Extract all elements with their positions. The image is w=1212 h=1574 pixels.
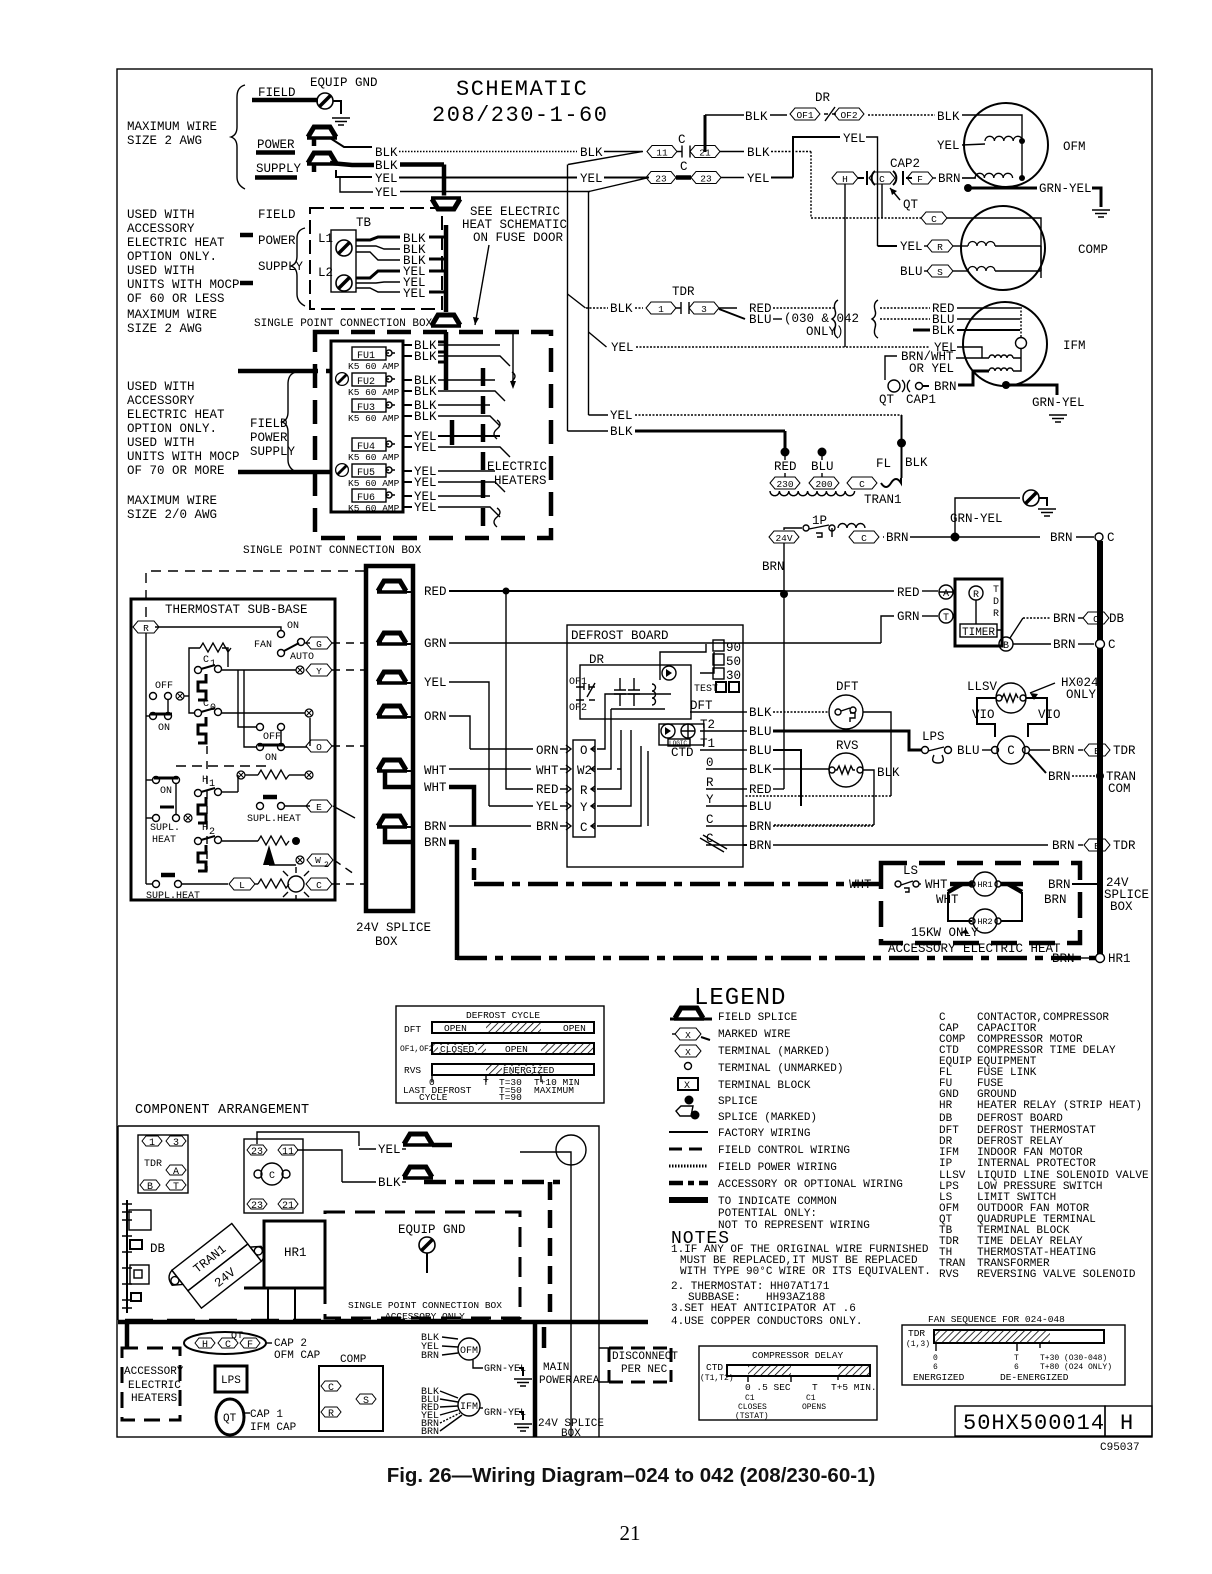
TB wires right: BLK x3 YEL x3 — [356, 237, 400, 240]
dashed R to splice — [146, 571, 365, 617]
svg-text:WITH TYPE 90°C WIRE OR ITS EQU: WITH TYPE 90°C WIRE OR ITS EQUIVALENT. — [680, 1266, 931, 1278]
svg-text:T+5 MIN.: T+5 MIN. — [831, 1382, 877, 1393]
svg-text:OF1: OF1 — [796, 110, 813, 121]
svg-text:SIZE 2/0 AWG: SIZE 2/0 AWG — [127, 508, 217, 522]
svg-text:OFM CAP: OFM CAP — [274, 1350, 321, 1362]
svg-text:MAXIMUM: MAXIMUM — [534, 1085, 574, 1096]
svg-text:BRN: BRN — [749, 820, 772, 834]
svg-text:YEL: YEL — [403, 287, 426, 301]
svg-text:INTERNAL PROTECTOR: INTERNAL PROTECTOR — [977, 1158, 1096, 1170]
heavy bus in box — [444, 332, 449, 390]
wire 21 up to DR — [704, 115, 707, 152]
svg-text:T+30 (O30-048): T+30 (O30-048) — [1040, 1354, 1107, 1363]
drop BLU stub — [818, 448, 827, 457]
svg-text:HEATERS: HEATERS — [131, 1393, 178, 1405]
svg-text:CLOSED: CLOSED — [440, 1044, 475, 1055]
splice RED — [377, 581, 407, 592]
YEL field splice — [403, 1134, 433, 1145]
C row to COMP — [811, 217, 921, 219]
compressor delay box — [699, 1346, 877, 1420]
heavy bus lower — [450, 420, 455, 445]
svg-text:LPS: LPS — [922, 730, 945, 744]
svg-text:4.USE COPPER CONDUCTORS ONLY.: 4.USE COPPER CONDUCTORS ONLY. — [671, 1316, 862, 1328]
svg-text:(TSTAT): (TSTAT) — [735, 1412, 769, 1421]
svg-text:BLK: BLK — [610, 425, 633, 439]
svg-text:F: F — [247, 1340, 253, 1351]
heavy dash-dot to accessory heat — [474, 882, 881, 887]
disconnect per nec dashed box — [609, 1348, 671, 1382]
svg-text:YEL: YEL — [536, 800, 559, 814]
svg-text:POWER: POWER — [250, 431, 288, 445]
wire to ground — [333, 101, 341, 114]
svg-text:SUPL.HEAT: SUPL.HEAT — [146, 891, 200, 902]
svg-text:50: 50 — [726, 655, 741, 669]
svg-text:C: C — [879, 174, 885, 185]
svg-text:DEFROST CYCLE: DEFROST CYCLE — [466, 1010, 540, 1021]
svg-text:R: R — [973, 590, 979, 601]
heavy feed lines — [238, 369, 296, 374]
verticals extending to bottom — [570, 1321, 572, 1437]
svg-text:HEAT SCHEMATIC: HEAT SCHEMATIC — [462, 218, 567, 232]
svg-text:OF2: OF2 — [840, 110, 857, 121]
svg-text:BLU: BLU — [749, 800, 772, 814]
contactor box — [244, 1139, 303, 1213]
drawing frame — [117, 69, 1152, 1437]
svg-text:21: 21 — [699, 148, 711, 159]
svg-text:LS: LS — [903, 864, 918, 878]
svg-text:BRN: BRN — [886, 531, 909, 545]
COMP box — [319, 1366, 383, 1431]
svg-text:A: A — [943, 589, 949, 600]
svg-text:BRN: BRN — [536, 820, 559, 834]
svg-text:C: C — [316, 880, 322, 891]
svg-text:NOT TO REPRESENT WIRING: NOT TO REPRESENT WIRING — [718, 1220, 870, 1232]
svg-text:X: X — [684, 1081, 690, 1092]
svg-text:C: C — [328, 1383, 334, 1394]
circle top right — [556, 1135, 586, 1165]
terminal marked symbol — [675, 1045, 701, 1057]
DR relay box — [580, 665, 691, 719]
svg-text:DFT: DFT — [836, 680, 859, 694]
svg-text:C: C — [861, 533, 867, 544]
24V splice box — [366, 566, 413, 911]
svg-text:ACCESSORY OR OPTIONAL WIRING: ACCESSORY OR OPTIONAL WIRING — [718, 1179, 903, 1191]
svg-text:FL: FL — [876, 457, 891, 471]
field control wiring symbol — [669, 1148, 708, 1151]
IFM internals — [1016, 338, 1027, 349]
svg-text:BLK: BLK — [932, 324, 955, 338]
svg-text:C: C — [580, 821, 588, 835]
svg-text:C: C — [1007, 744, 1015, 758]
svg-text:A: A — [173, 1167, 179, 1178]
svg-text:RED: RED — [897, 586, 920, 600]
resistor loop above C1 — [189, 648, 200, 667]
ground — [332, 118, 350, 125]
IFM small — [458, 1394, 480, 1416]
svg-text:OR YEL: OR YEL — [909, 362, 954, 376]
E row — [257, 803, 264, 810]
svg-text:DFT: DFT — [690, 699, 713, 713]
H drop — [844, 184, 846, 347]
svg-text:YEL: YEL — [610, 409, 633, 423]
YEL riser to top — [793, 137, 840, 178]
svg-text:RED: RED — [536, 783, 559, 797]
COMP motor — [961, 206, 1045, 290]
svg-text:C: C — [203, 699, 209, 710]
screw L1 — [336, 240, 352, 256]
svg-text:TERMINAL (UNMARKED): TERMINAL (UNMARKED) — [718, 1063, 843, 1075]
svg-text:POWER: POWER — [539, 1375, 572, 1387]
OFM motor — [964, 103, 1048, 187]
svg-text:C: C — [931, 214, 937, 225]
svg-text:QT: QT — [231, 1331, 243, 1342]
svg-text:BLK: BLK — [745, 110, 768, 124]
svg-text:FACTORY WIRING: FACTORY WIRING — [718, 1128, 810, 1140]
svg-text:11: 11 — [656, 148, 668, 159]
svg-text:FIELD: FIELD — [258, 208, 296, 222]
svg-text:ON: ON — [265, 753, 277, 764]
svg-text:FAN: FAN — [254, 640, 272, 651]
svg-text:X: X — [685, 1047, 691, 1058]
svg-text:ONLY): ONLY) — [806, 325, 844, 339]
OFM small — [458, 1338, 480, 1360]
svg-text:OPEN: OPEN — [563, 1023, 586, 1034]
svg-text:3: 3 — [173, 1138, 179, 1149]
svg-text:23: 23 — [251, 1147, 263, 1158]
svg-text:TO INDICATE COMMON: TO INDICATE COMMON — [718, 1196, 837, 1208]
svg-text:23: 23 — [700, 174, 712, 185]
checkbox 90 — [713, 640, 724, 651]
svg-text:21: 21 — [620, 1521, 641, 1545]
terminal block symbol — [678, 1078, 698, 1090]
svg-text:LEGEND: LEGEND — [694, 985, 786, 1012]
svg-text:COMPRESSOR DELAY: COMPRESSOR DELAY — [752, 1350, 844, 1361]
svg-text:1: 1 — [658, 304, 664, 315]
svg-text:L2: L2 — [318, 266, 333, 280]
field splice at box top — [431, 315, 461, 326]
svg-text:BRN: BRN — [421, 1351, 439, 1362]
svg-text:15KW ONLY: 15KW ONLY — [911, 926, 979, 940]
svg-text:FIELD POWER WIRING: FIELD POWER WIRING — [718, 1162, 837, 1174]
svg-text:CTD: CTD — [706, 1362, 723, 1373]
svg-text:C1: C1 — [745, 1394, 755, 1403]
svg-text:VIO: VIO — [972, 708, 995, 722]
LPS box — [215, 1366, 247, 1392]
bottom heavy dashed — [125, 1319, 520, 1324]
svg-text:COMPONENT ARRANGEMENT: COMPONENT ARRANGEMENT — [135, 1103, 309, 1118]
svg-text:21: 21 — [282, 1201, 294, 1212]
svg-text:BLU: BLU — [900, 265, 923, 279]
svg-text:BLK: BLK — [414, 350, 437, 364]
svg-text:T: T — [993, 585, 999, 596]
svg-text:DB: DB — [939, 1113, 953, 1125]
terminal OF2 — [834, 108, 864, 120]
O circuit OFF ON — [257, 724, 264, 731]
svg-text:ELECTRIC HEAT: ELECTRIC HEAT — [127, 236, 225, 250]
svg-text:TIMER: TIMER — [962, 627, 995, 639]
outer dashed box (single point connection box) — [315, 332, 551, 538]
svg-text:TDR: TDR — [908, 1328, 925, 1339]
drop from YEL row to FL — [901, 415, 903, 443]
wire 11 to BLK — [297, 1150, 342, 1182]
svg-text:CLOSES: CLOSES — [738, 1403, 767, 1412]
svg-text:USED WITH: USED WITH — [127, 208, 195, 222]
wires H1 — [222, 791, 238, 793]
svg-text:GRN-YEL: GRN-YEL — [484, 1408, 526, 1419]
svg-text:T: T — [943, 613, 949, 624]
svg-text:SINGLE POINT CONNECTION BOX: SINGLE POINT CONNECTION BOX — [348, 1300, 502, 1311]
svg-text:BRN: BRN — [1050, 531, 1073, 545]
svg-text:POWER: POWER — [258, 234, 296, 248]
svg-text:HEATER RELAY (STRIP HEAT): HEATER RELAY (STRIP HEAT) — [977, 1100, 1142, 1112]
svg-text:CAP 2: CAP 2 — [274, 1338, 307, 1350]
24V hex drop BRN — [783, 543, 785, 591]
svg-text:Y: Y — [706, 793, 714, 807]
resistor row with cx — [237, 771, 245, 779]
svg-text:MAXIMUM WIRE: MAXIMUM WIRE — [127, 120, 217, 134]
BLK drop from DFT — [863, 712, 891, 796]
svg-text:SINGLE POINT CONNECTION BOX: SINGLE POINT CONNECTION BOX — [243, 545, 422, 557]
svg-text:OFM: OFM — [1063, 140, 1086, 154]
svg-text:(1,3): (1,3) — [906, 1340, 930, 1349]
QT CAP1 — [888, 380, 900, 392]
svg-text:HEATERS: HEATERS — [494, 474, 547, 488]
svg-text:HR2: HR2 — [977, 917, 992, 927]
svg-text:UNITS WITH MOCP: UNITS WITH MOCP — [127, 278, 240, 292]
brace 030 — [832, 300, 838, 338]
TRAN1 terminals — [770, 477, 800, 489]
svg-text:23: 23 — [655, 174, 667, 185]
svg-text:SCHEMATIC: SCHEMATIC — [456, 77, 588, 102]
svg-text:ONLY: ONLY — [1066, 688, 1097, 702]
fuse FU6 — [352, 489, 386, 502]
svg-text:IFM: IFM — [460, 1402, 478, 1413]
svg-text:YEL: YEL — [937, 139, 960, 153]
heavy feed drop inside box — [512, 334, 514, 385]
R left bus — [145, 633, 147, 884]
svg-text:CAP1: CAP1 — [906, 393, 936, 407]
IFM motor — [963, 302, 1047, 386]
svg-text:WHT: WHT — [424, 781, 447, 795]
thick divider — [118, 1320, 648, 1325]
svg-text:ELECTRIC: ELECTRIC — [128, 1380, 181, 1392]
svg-text:WHT: WHT — [424, 764, 447, 778]
long risers from top section — [568, 152, 642, 165]
svg-text:X: X — [685, 1030, 691, 1041]
svg-text:SEE ELECTRIC: SEE ELECTRIC — [470, 205, 560, 219]
svg-text:W2: W2 — [577, 764, 592, 778]
BLK drop from 21 to C row — [810, 152, 812, 219]
svg-text:RVS: RVS — [836, 739, 859, 753]
svg-text:K5 60 AMP: K5 60 AMP — [348, 478, 400, 489]
svg-text:BLK: BLK — [747, 146, 770, 160]
svg-text:GRN: GRN — [897, 610, 920, 624]
splice BRN — [377, 816, 407, 827]
svg-text:BRN: BRN — [762, 560, 785, 574]
svg-text:BRN: BRN — [938, 172, 961, 186]
title block 50HX500014 H — [955, 1406, 1105, 1436]
svg-text:ELECTRIC: ELECTRIC — [487, 460, 547, 474]
svg-text:IP: IP — [939, 1158, 953, 1170]
svg-text:TEST: TEST — [694, 684, 718, 695]
svg-text:OF 70 OR MORE: OF 70 OR MORE — [127, 464, 225, 478]
DB board strip left — [126, 1200, 128, 1313]
svg-text:H: H — [1120, 1411, 1133, 1436]
svg-text:GRN-YEL: GRN-YEL — [1032, 396, 1085, 410]
svg-text:SINGLE POINT CONNECTION BOX: SINGLE POINT CONNECTION BOX — [254, 318, 433, 330]
svg-text:H: H — [202, 823, 208, 834]
svg-text:DE-ENERGIZED: DE-ENERGIZED — [1000, 1372, 1069, 1383]
accessory electric heaters dashed box — [122, 1348, 180, 1420]
brace 2 — [291, 228, 305, 306]
svg-text:ORN: ORN — [536, 744, 559, 758]
DR contact slash — [824, 107, 836, 121]
svg-text:YEL: YEL — [611, 341, 634, 355]
svg-text:QT: QT — [879, 393, 895, 407]
svg-text:K5 60 AMP: K5 60 AMP — [348, 503, 400, 514]
svg-text:BLU: BLU — [811, 460, 834, 474]
svg-text:BLK: BLK — [749, 706, 772, 720]
svg-text:C: C — [269, 1171, 275, 1182]
svg-text:BRN: BRN — [421, 1427, 439, 1438]
right bus — [1097, 541, 1103, 958]
svg-text:BRN: BRN — [1048, 878, 1071, 892]
svg-text:HR: HR — [939, 1100, 953, 1112]
svg-text:BRN: BRN — [934, 380, 957, 394]
electric heaters dashed partition — [481, 368, 486, 538]
svg-text:YEL: YEL — [424, 676, 447, 690]
svg-text:T: T — [1014, 1354, 1019, 1363]
ground — [1092, 210, 1110, 217]
svg-text:ORN: ORN — [424, 710, 447, 724]
svg-text:50HX500014: 50HX500014 — [963, 1411, 1105, 1436]
svg-text:OFF: OFF — [263, 732, 281, 743]
svg-text:S: S — [937, 267, 943, 278]
brace — [282, 372, 296, 472]
svg-text:ON: ON — [287, 621, 299, 632]
HR1 box — [264, 1221, 325, 1288]
svg-text:DB: DB — [150, 1242, 166, 1256]
svg-text:YEL: YEL — [747, 172, 770, 186]
svg-text:L: L — [239, 880, 245, 891]
svg-text:BLU: BLU — [749, 744, 772, 758]
svg-text:TERMINAL (MARKED): TERMINAL (MARKED) — [718, 1046, 830, 1058]
checkbox 50 — [713, 654, 724, 665]
splice WHT — [377, 760, 407, 771]
svg-text:ON: ON — [160, 786, 172, 797]
dashed box accessory only — [325, 1212, 520, 1318]
svg-text:SUPL.HEAT: SUPL.HEAT — [247, 814, 301, 825]
svg-text:B: B — [1094, 746, 1100, 757]
OFM grn-yel — [473, 1360, 483, 1368]
svg-text:EQUIP GND: EQUIP GND — [398, 1223, 466, 1237]
svg-text:YEL: YEL — [843, 132, 866, 146]
svg-text:DR: DR — [589, 653, 605, 667]
BLK field splice — [403, 1167, 433, 1178]
svg-text:WHT: WHT — [925, 878, 948, 892]
fuse FU5 — [336, 464, 349, 477]
svg-text:BLK: BLK — [375, 159, 398, 173]
svg-text:COMP: COMP — [1078, 243, 1108, 257]
svg-text:REVERSING VALVE SOLENOID: REVERSING VALVE SOLENOID — [977, 1269, 1136, 1281]
C contactor coil — [997, 736, 1025, 764]
capacitors — [614, 678, 626, 706]
svg-text:TERMINAL BLOCK: TERMINAL BLOCK — [718, 1080, 811, 1092]
terminal OF1 — [790, 108, 820, 120]
fuse block solid box — [331, 341, 403, 512]
arrow to fuse door — [475, 245, 489, 325]
svg-text:BOX: BOX — [375, 935, 398, 949]
svg-text:1: 1 — [149, 1138, 155, 1149]
drop to 230 — [784, 431, 787, 455]
svg-text:BRN: BRN — [424, 836, 447, 850]
svg-text:G: G — [316, 639, 322, 650]
svg-text:QT: QT — [223, 1413, 237, 1425]
svg-text:O: O — [316, 742, 322, 753]
dashes — [176, 765, 268, 767]
svg-text:30: 30 — [726, 669, 741, 683]
OFM internal wiring — [985, 115, 1022, 178]
svg-text:SIZE 2 AWG: SIZE 2 AWG — [127, 134, 202, 148]
svg-text:BRN: BRN — [1052, 839, 1075, 853]
bar below resistor — [263, 795, 277, 800]
svg-text:GRN-YEL: GRN-YEL — [950, 512, 1003, 526]
svg-text:6: 6 — [1014, 1363, 1019, 1372]
svg-text:LPS: LPS — [221, 1375, 241, 1387]
svg-text:SUPPLY: SUPPLY — [258, 260, 304, 274]
svg-text:MAXIMUM WIRE: MAXIMUM WIRE — [127, 494, 217, 508]
svg-text:C1: C1 — [806, 1394, 816, 1403]
svg-text:TDR: TDR — [672, 285, 695, 299]
svg-text:USED WITH: USED WITH — [127, 264, 195, 278]
svg-text:0: 0 — [706, 756, 714, 770]
svg-text:BLK: BLK — [414, 385, 437, 399]
svg-text:OF2: OF2 — [569, 703, 587, 714]
riser from C cap to COMP C row — [881, 217, 883, 219]
svg-text:ENERGIZED: ENERGIZED — [503, 1065, 555, 1076]
GRN-YEL screw mid — [955, 498, 1020, 537]
svg-text:3.SET HEAT ANTICIPATOR AT .6: 3.SET HEAT ANTICIPATOR AT .6 — [671, 1303, 856, 1315]
svg-text:SUPPLY: SUPPLY — [256, 162, 302, 176]
svg-text:(030 & 042: (030 & 042 — [784, 312, 859, 326]
heavy connector bars right of TB — [444, 225, 449, 300]
ticks — [432, 1075, 541, 1082]
splice YEL — [377, 672, 407, 683]
svg-text:R: R — [706, 776, 714, 790]
svg-text:B: B — [1003, 641, 1009, 652]
internal traces — [597, 694, 671, 749]
svg-text:Y: Y — [316, 666, 322, 677]
wire C0 right — [221, 712, 305, 714]
splice marked symbol — [676, 1106, 693, 1116]
svg-text:BLK: BLK — [905, 456, 928, 470]
to indicate common symbol — [669, 1197, 708, 1203]
svg-text:C95037: C95037 — [1100, 1442, 1140, 1454]
svg-text:C: C — [203, 655, 209, 666]
top wire to ON — [155, 627, 281, 631]
field splice power — [307, 127, 337, 138]
svg-text:BLK: BLK — [580, 146, 603, 160]
svg-text:Y: Y — [580, 801, 588, 815]
transformer primary coil — [770, 491, 855, 496]
svg-text:USED WITH: USED WITH — [127, 436, 195, 450]
fuse FU2 — [336, 373, 349, 386]
svg-text:POWER: POWER — [257, 138, 295, 152]
svg-text:T2: T2 — [700, 718, 715, 732]
svg-text:RVS: RVS — [939, 1269, 959, 1281]
svg-text:24V SPLICE: 24V SPLICE — [356, 921, 431, 935]
svg-text:D: D — [993, 597, 999, 608]
